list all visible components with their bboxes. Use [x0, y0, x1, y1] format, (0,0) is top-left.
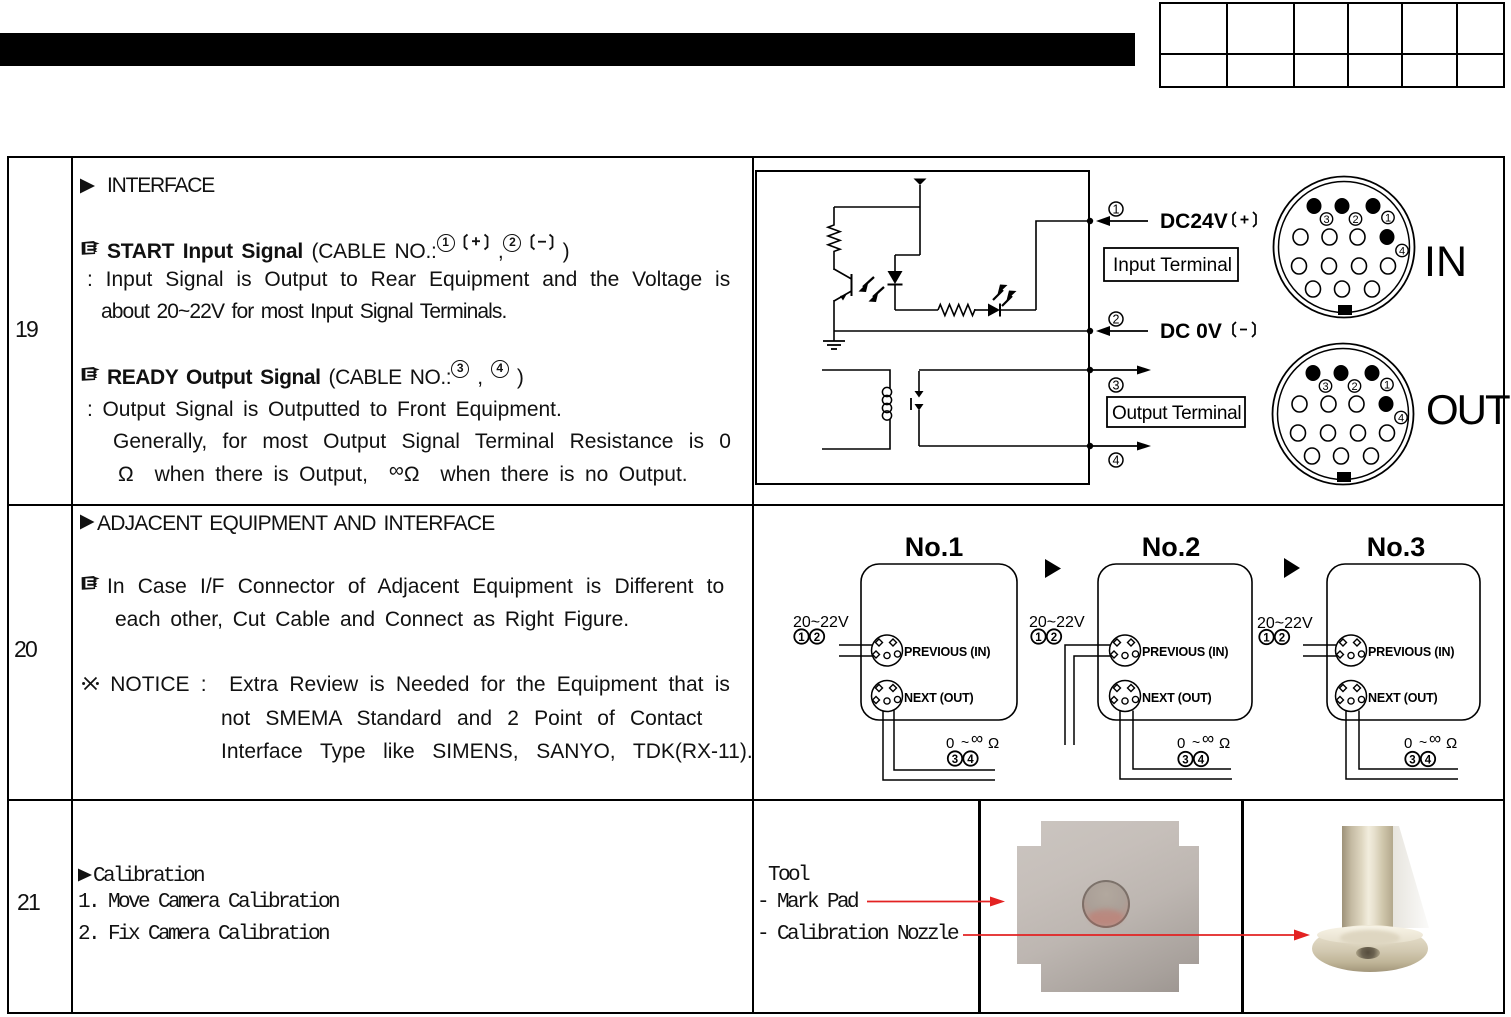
- Input Terminal box: [1104, 248, 1238, 281]
- No.1 pins 1 2: [794, 629, 824, 644]
- No.3 pins 3 4: [1405, 752, 1435, 767]
- OUT connector: [1273, 344, 1414, 485]
- No.2 NEXT connector: [1110, 681, 1141, 712]
- svg-text:∞: ∞: [971, 729, 983, 748]
- No.1 output wires: [883, 711, 995, 781]
- pin 4 terminal: [1087, 442, 1151, 468]
- svg-text:No.3: No.3: [1367, 532, 1426, 562]
- svg-text:NEXT (OUT): NEXT (OUT): [1142, 691, 1212, 705]
- No.1 20~22V label: [793, 614, 849, 631]
- No.3 pins 1 2: [1259, 630, 1289, 645]
- No.2 PREVIOUS label: [1142, 645, 1228, 659]
- svg-text:PREVIOUS (IN): PREVIOUS (IN): [1142, 645, 1228, 659]
- No.2 output wires: [1120, 711, 1232, 780]
- svg-text:NEXT (OUT): NEXT (OUT): [904, 691, 974, 705]
- svg-text:0: 0: [1404, 735, 1412, 752]
- svg-text:1: 1: [1384, 380, 1390, 392]
- svg-text:1: 1: [1035, 632, 1042, 644]
- svg-text:Output Terminal: Output Terminal: [1112, 403, 1241, 424]
- svg-text:4: 4: [967, 754, 974, 766]
- No.1 equipment box: [861, 564, 1017, 720]
- No.2 resistance label: [1177, 729, 1230, 752]
- mark pad photo: [1017, 821, 1199, 992]
- svg-text:1: 1: [1263, 633, 1270, 645]
- No.2 input wires with cut drops: [1065, 645, 1110, 745]
- No.1 NEXT label: [904, 691, 974, 705]
- svg-text:No.1: No.1: [905, 532, 964, 562]
- svg-text:∞: ∞: [1429, 729, 1441, 748]
- svg-text:4: 4: [1398, 413, 1404, 425]
- flow arrow 1: [1045, 559, 1061, 578]
- DC 0V label: [1160, 320, 1255, 343]
- svg-text:No.2: No.2: [1142, 532, 1201, 562]
- power arrow at top of input circuit: [914, 179, 927, 256]
- svg-text:3: 3: [952, 754, 958, 766]
- resistor R2: [938, 305, 975, 316]
- svg-text:1: 1: [1113, 203, 1120, 217]
- svg-text:~: ~: [961, 734, 969, 750]
- diode D1: [888, 255, 921, 310]
- No.3 PREVIOUS connector: [1336, 635, 1367, 666]
- svg-text:0: 0: [946, 735, 954, 752]
- No.2 PREVIOUS connector: [1110, 635, 1141, 666]
- resistor R1: [828, 207, 840, 270]
- No.3 equipment box: [1327, 564, 1480, 720]
- pin 2 terminal: [1087, 312, 1148, 336]
- relay contact S1: [911, 371, 924, 446]
- svg-text:4: 4: [1399, 246, 1405, 258]
- svg-text:Ω: Ω: [988, 735, 999, 752]
- top-right grid table: [1159, 2, 1505, 88]
- svg-text:2: 2: [1351, 381, 1357, 393]
- svg-text:3: 3: [1322, 381, 1328, 393]
- equipment outline box: [756, 171, 1089, 484]
- wire pin4 rail: [919, 445, 1089, 447]
- svg-text:2: 2: [814, 632, 820, 644]
- phototransistor Q1: [834, 269, 852, 331]
- No.1 PREVIOUS label: [904, 645, 990, 659]
- svg-text:3: 3: [1182, 755, 1188, 767]
- No.2 NEXT label: [1142, 691, 1212, 705]
- No.3 PREVIOUS label: [1368, 645, 1454, 659]
- LED D2: [974, 285, 1036, 317]
- svg-text:NEXT (OUT): NEXT (OUT): [1368, 691, 1438, 705]
- pin 1 terminal: [1087, 202, 1148, 226]
- No.1 title: [905, 532, 964, 562]
- svg-text:Ω: Ω: [1219, 735, 1230, 752]
- svg-text:2: 2: [1279, 633, 1285, 645]
- Output Terminal box: [1107, 397, 1245, 427]
- IN label: [1424, 238, 1467, 286]
- svg-text:DC24V: DC24V: [1160, 210, 1228, 233]
- ground: [823, 331, 845, 349]
- row numbers: [15, 317, 37, 341]
- No.3 input wires: [1303, 645, 1336, 656]
- wire to pin1: [1036, 221, 1089, 310]
- No.1 resistance label: [946, 729, 999, 752]
- svg-text:IN: IN: [1424, 238, 1467, 286]
- No.3 NEXT label: [1368, 691, 1438, 705]
- svg-text:2: 2: [1113, 313, 1120, 327]
- svg-text:2: 2: [1051, 632, 1057, 644]
- svg-text:DC 0V: DC 0V: [1160, 320, 1222, 343]
- red arrow to mark pad: [867, 897, 1005, 907]
- svg-text:3: 3: [1409, 755, 1415, 767]
- svg-text:1: 1: [1385, 213, 1391, 225]
- top black title bar: [0, 33, 1135, 66]
- pin 3 terminal: [1087, 366, 1151, 393]
- flow arrow 2: [1284, 558, 1300, 578]
- svg-text:3: 3: [1113, 379, 1120, 393]
- opto light arrows: [859, 277, 885, 302]
- svg-text:0: 0: [1177, 735, 1185, 752]
- No.2 20~22V label: [1029, 614, 1085, 631]
- No.1 pins 3 4: [948, 751, 978, 766]
- svg-text:2: 2: [1352, 214, 1358, 226]
- svg-text:1: 1: [798, 632, 805, 644]
- No.2 equipment box: [1098, 564, 1252, 720]
- DC24V label: [1160, 210, 1256, 233]
- No.3 resistance label: [1404, 729, 1457, 752]
- svg-text:Ω: Ω: [1446, 735, 1457, 752]
- No.1 PREVIOUS connector: [872, 635, 903, 666]
- svg-text:4: 4: [1425, 755, 1432, 767]
- svg-text:4: 4: [1198, 755, 1205, 767]
- wire: [895, 309, 938, 311]
- red arrow to calibration nozzle: [963, 930, 1310, 941]
- No.3 NEXT connector: [1336, 681, 1367, 712]
- wire top rail: [834, 206, 920, 208]
- svg-text:20~22V: 20~22V: [1029, 614, 1085, 631]
- No.2 pins 1 2: [1031, 629, 1061, 644]
- No.3 20~22V label: [1257, 615, 1313, 632]
- svg-text:~: ~: [1192, 734, 1200, 750]
- No.2 pins 3 4: [1178, 752, 1208, 767]
- No.3 output wires: [1346, 711, 1458, 780]
- wire DC0V rail: [834, 330, 1089, 332]
- svg-text:Input Terminal: Input Terminal: [1113, 255, 1232, 276]
- svg-text:∞: ∞: [1202, 729, 1214, 748]
- No.2 title: [1142, 532, 1201, 562]
- svg-text:OUT: OUT: [1426, 386, 1510, 433]
- relay coil L1: [822, 370, 892, 449]
- No.1 NEXT connector: [872, 681, 903, 712]
- calibration nozzle photo: [1300, 818, 1440, 978]
- wire pin3 rail: [919, 369, 1089, 371]
- OUT label: [1426, 386, 1510, 433]
- svg-text:4: 4: [1113, 454, 1120, 468]
- svg-text:3: 3: [1323, 214, 1329, 226]
- svg-text:PREVIOUS (IN): PREVIOUS (IN): [904, 645, 990, 659]
- svg-text:~: ~: [1419, 734, 1427, 750]
- svg-text:PREVIOUS (IN): PREVIOUS (IN): [1368, 645, 1454, 659]
- IN connector: [1274, 177, 1415, 318]
- No.3 title: [1367, 532, 1426, 562]
- No.1 input wires: [839, 645, 872, 656]
